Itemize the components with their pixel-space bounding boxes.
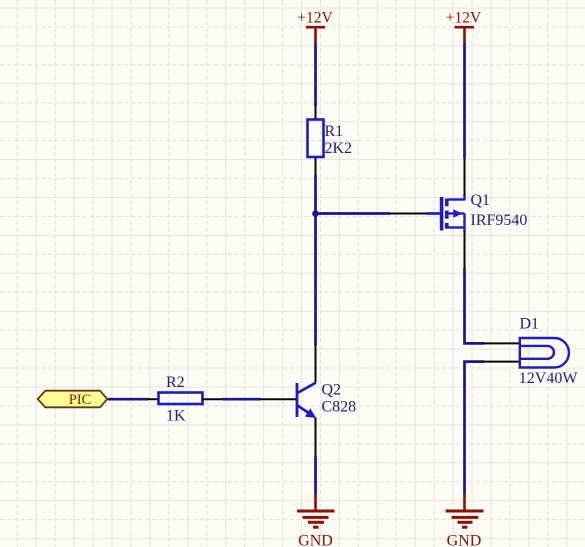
resistor R2 [159, 393, 203, 405]
svg-text:R2: R2 [166, 374, 185, 391]
wire D1 pin 2 to GND [465, 362, 485, 495]
pin R2.1 [147, 398, 159, 400]
svg-text:1K: 1K [166, 408, 186, 425]
wire R2 pin 2 to Q2 base [222, 398, 261, 401]
transistor Q1 (P-MOSFET) [426, 195, 465, 233]
svg-text:R1: R1 [325, 123, 344, 140]
svg-text:GND: GND [298, 533, 333, 547]
wire +12V to Q1 drain [463, 44, 466, 159]
pin Q1.S [464, 231, 466, 269]
resistor R1 [308, 120, 324, 158]
svg-text:2K2: 2K2 [325, 140, 353, 157]
pin Q2.E [315, 418, 317, 458]
svg-text:12V40W: 12V40W [519, 370, 579, 387]
transistor Q2 [297, 383, 317, 418]
svg-text:+12V: +12V [297, 9, 333, 26]
wire R1 pin 2 to node A [314, 175, 317, 214]
power +12V (right) [455, 27, 475, 44]
pin D1.2 [483, 361, 520, 363]
svg-text:C828: C828 [322, 399, 357, 416]
ground GND (right) [446, 494, 484, 527]
pin R1.2 [315, 157, 317, 177]
svg-text:GND: GND [447, 533, 482, 547]
svg-text:D1: D1 [520, 315, 540, 332]
lamp D1 [520, 338, 569, 368]
power +12V (left) [306, 27, 325, 44]
svg-text:PIC: PIC [69, 392, 92, 408]
wire PIC to R2 pin 1 [108, 398, 148, 401]
node A junction dot [312, 210, 319, 217]
wire Q2 emitter to GND [314, 456, 317, 495]
svg-text:+12V: +12V [446, 9, 482, 26]
ground GND (left) [297, 494, 335, 527]
wire node A to Q2 collector [314, 214, 317, 346]
svg-text:IRF9540: IRF9540 [471, 212, 528, 229]
pin Q2.C [315, 344, 317, 383]
pin R2.2 [202, 398, 223, 400]
pin Q1.G [389, 213, 427, 215]
pin D1.1 [483, 342, 520, 344]
pin R1.1 [315, 105, 317, 120]
wire Q1 source to D1 pin 1 [465, 268, 485, 343]
wire node A to Q1 gate [316, 212, 391, 215]
port PIC [38, 391, 108, 408]
svg-text:Q1: Q1 [471, 192, 491, 209]
pin Q1.D [464, 158, 466, 196]
pin Q2.B [260, 398, 296, 400]
svg-text:Q2: Q2 [322, 382, 342, 399]
wire +12V to R1 pin 1 [314, 44, 317, 107]
